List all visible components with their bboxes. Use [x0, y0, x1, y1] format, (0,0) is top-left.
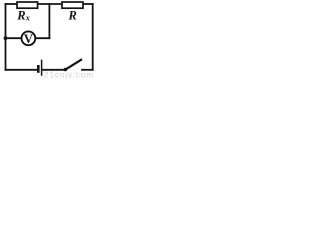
- svg-text:R: R: [68, 8, 77, 22]
- svg-text:21cnjy.com: 21cnjy.com: [44, 70, 94, 78]
- svg-text:V: V: [24, 32, 33, 46]
- svg-text:x: x: [25, 13, 30, 22]
- svg-text:R: R: [16, 8, 25, 22]
